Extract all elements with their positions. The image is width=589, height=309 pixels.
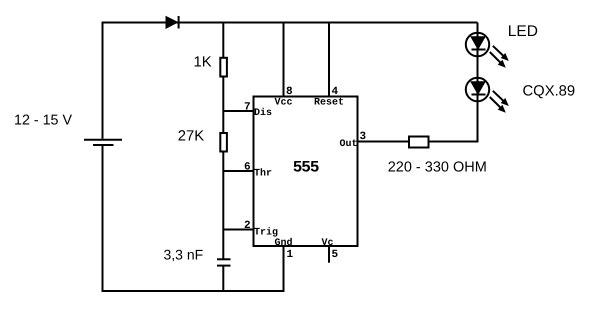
svg-text:8: 8 (286, 86, 293, 98)
svg-text:1K: 1K (194, 55, 212, 71)
svg-text:Trig: Trig (254, 227, 278, 239)
svg-text:LED: LED (508, 23, 538, 40)
svg-text:Gnd: Gnd (275, 237, 293, 249)
svg-text:Thr: Thr (254, 168, 272, 180)
svg-text:1: 1 (287, 249, 294, 261)
svg-text:220 - 330 OHM: 220 - 330 OHM (388, 160, 487, 176)
svg-text:12 - 15 V: 12 - 15 V (14, 113, 72, 129)
svg-text:Vcc: Vcc (275, 98, 293, 109)
svg-text:Dis: Dis (254, 107, 272, 119)
svg-text:3,3 nF: 3,3 nF (164, 247, 204, 263)
svg-text:27K: 27K (178, 129, 204, 145)
svg-text:5: 5 (332, 249, 339, 261)
svg-text:CQX.89: CQX.89 (523, 84, 576, 100)
svg-text:2: 2 (244, 220, 251, 232)
svg-text:3: 3 (360, 131, 367, 143)
svg-text:4: 4 (332, 86, 339, 98)
svg-text:555: 555 (293, 159, 319, 177)
svg-text:6: 6 (244, 162, 251, 174)
svg-text:7: 7 (244, 102, 251, 114)
svg-text:Out: Out (340, 139, 358, 150)
svg-text:Vc: Vc (322, 238, 334, 249)
svg-text:Reset: Reset (314, 98, 344, 109)
